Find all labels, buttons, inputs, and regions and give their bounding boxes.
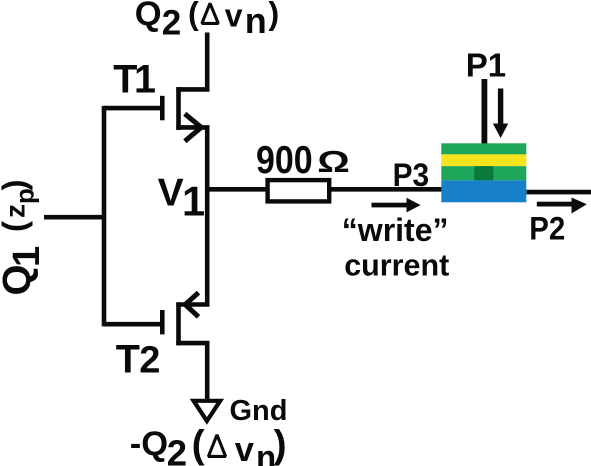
wire: T2 gate lead: [104, 322, 160, 327]
transistor T2: [162, 293, 198, 346]
ground symbol: [194, 401, 221, 421]
device stack layer: yellow barrier: [441, 154, 526, 166]
label Q1 (zp) input, rotated: [0, 180, 48, 296]
wire: resistor to device P3 terminal: [329, 187, 441, 192]
svg-text:v: v: [225, 0, 243, 33]
svg-text:P3: P3: [393, 157, 430, 193]
svg-text:(: (: [0, 221, 33, 232]
wire: device right terminal P2 output: [526, 190, 591, 195]
wire: V1 node to resistor: [207, 187, 268, 192]
wire: T1 gate lead: [104, 106, 160, 111]
svg-text:“write”: “write”: [342, 212, 449, 248]
svg-text:2: 2: [162, 3, 181, 42]
label V1 node: [158, 171, 205, 224]
wire: T2 source down to ground: [176, 343, 207, 401]
T2 gate bar: [160, 310, 165, 334]
arrow: write current direction: [372, 198, 421, 213]
svg-text:2: 2: [139, 339, 160, 381]
T2 drain arrow: [185, 293, 198, 317]
svg-text:Q: Q: [0, 264, 39, 295]
svg-text:P1: P1: [466, 47, 506, 84]
svg-text:2: 2: [167, 433, 187, 466]
T1 channel: [176, 87, 181, 130]
wire: Q1 input lead: [44, 215, 104, 220]
wire: drain of T1 up to Q2 terminal: [176, 33, 207, 90]
wire: P1 terminal into top of device: [481, 79, 487, 144]
label T1: [113, 57, 156, 101]
transistor T1: [162, 87, 201, 141]
svg-text:P2: P2: [529, 211, 565, 247]
svg-text:): ): [268, 0, 279, 32]
svg-text:(: (: [192, 424, 205, 466]
svg-text:Ω: Ω: [317, 143, 350, 178]
arrow: P1 write current in: [493, 89, 508, 139]
device stack layer: top green electrode: [441, 143, 526, 154]
label -Q2 (dVn) bottom terminal: [130, 424, 287, 466]
svg-text:-Q: -Q: [130, 425, 168, 463]
resistor R 900 ohm body: [268, 180, 330, 201]
device stack layer: green free layer: [441, 166, 526, 180]
svg-text:n: n: [245, 0, 267, 41]
svg-text:T: T: [116, 337, 140, 381]
svg-text:z: z: [0, 204, 31, 218]
svg-text:v: v: [235, 431, 255, 466]
svg-text:V: V: [158, 171, 184, 214]
device stack: dark green nano region: [474, 166, 493, 180]
svg-text:current: current: [344, 249, 449, 283]
wire: T1 source to V1 bus down to T2 drain: [176, 127, 207, 304]
arrow: P2 current out: [537, 198, 587, 214]
svg-text:(: (: [188, 0, 199, 32]
svg-text:1: 1: [6, 246, 48, 267]
svg-text:900: 900: [256, 138, 313, 182]
wire: left gate bus vertical: [102, 106, 107, 327]
svg-text:): ): [274, 424, 287, 466]
svg-text:Gnd: Gnd: [230, 395, 288, 427]
svg-text:): ): [0, 180, 33, 191]
device stack layer: blue bottom electrode: [441, 180, 526, 202]
svg-text:1: 1: [182, 178, 205, 225]
svg-text:Q: Q: [135, 0, 162, 33]
T2 channel: [176, 302, 181, 345]
label Q2 (dVn) top terminal: [135, 0, 279, 42]
label T2: [116, 337, 161, 381]
T1 source arrow: [185, 114, 202, 141]
T1 gate bar: [160, 96, 165, 121]
label 900 ohm resistor value: [256, 138, 350, 182]
svg-text:1: 1: [134, 57, 156, 101]
